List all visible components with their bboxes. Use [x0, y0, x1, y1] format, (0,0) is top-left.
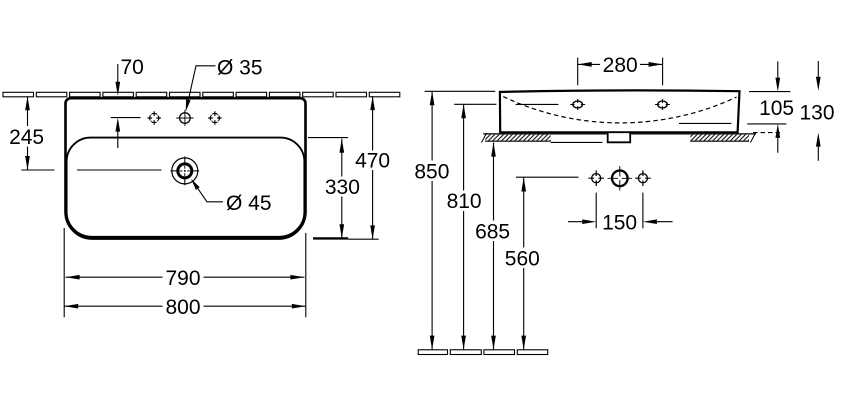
svg-text:150: 150 [602, 211, 637, 234]
label 685 [473, 220, 512, 243]
mounting shelf line [483, 133, 756, 135]
drain trap hole center [608, 166, 632, 190]
label 105 [759, 97, 795, 120]
wall tile strip [3, 92, 400, 97]
floor tile strip [418, 350, 548, 355]
svg-text:800: 800 [165, 296, 200, 319]
faucet hole 35 [176, 110, 193, 126]
svg-text:810: 810 [447, 190, 482, 213]
overflow hole left [570, 99, 585, 110]
ext line bottom right of basin [313, 237, 348, 239]
svg-text:330: 330 [325, 176, 360, 199]
svg-text:560: 560 [505, 248, 540, 271]
basin body [500, 90, 740, 132]
dim 245 [21, 96, 161, 170]
overflow hole right [655, 99, 670, 110]
label d35 [216, 57, 265, 80]
leader diameter 35 [183, 66, 216, 112]
label 245 [8, 126, 47, 149]
svg-text:470: 470 [355, 150, 390, 173]
dim 470 [370, 96, 375, 239]
ext 685 [551, 141, 603, 143]
leader diameter 45 [189, 177, 223, 201]
label 70 [120, 56, 147, 79]
dim 70 [111, 64, 141, 148]
label d45 [225, 192, 274, 215]
drain notch [608, 133, 631, 143]
svg-text:245: 245 [9, 126, 44, 149]
svg-text:685: 685 [475, 220, 510, 243]
svg-text:105: 105 [759, 97, 794, 120]
svg-text:850: 850 [414, 160, 449, 183]
label 850 [413, 160, 452, 183]
optional tap hole right [208, 111, 221, 124]
hatch right [690, 135, 749, 142]
dim 280 [578, 58, 663, 86]
hatch left [485, 135, 551, 142]
ext 105 bottom inner [679, 122, 731, 124]
label 280 [601, 54, 640, 77]
label 790 [163, 267, 204, 290]
svg-text:280: 280 [603, 54, 638, 77]
dim 800 [64, 304, 306, 309]
label 560 [504, 248, 542, 271]
dim 850 [425, 91, 496, 349]
basin inner bowl outline [67, 138, 305, 237]
drain trap hole right [635, 170, 651, 186]
dim 560 [521, 178, 526, 350]
svg-text:790: 790 [165, 267, 200, 290]
ext 810 inner [516, 103, 559, 105]
dim 330 [308, 138, 348, 239]
ext lines 790 800 [64, 228, 306, 317]
svg-text:Ø 45: Ø 45 [226, 192, 272, 215]
dim 810 [454, 104, 496, 349]
drain hole 45 [170, 157, 199, 186]
optional tap hole left [148, 111, 161, 124]
svg-text:130: 130 [799, 102, 834, 125]
inner bowl dashed curve [503, 97, 736, 123]
label 130 [799, 102, 835, 125]
label 470 [354, 150, 393, 173]
label 330 [323, 176, 362, 199]
dim 105 [747, 61, 790, 152]
dim 130 [753, 61, 821, 161]
label 810 [445, 190, 483, 213]
svg-text:Ø 35: Ø 35 [217, 57, 263, 80]
dim 685 [491, 143, 496, 350]
drain trap hole left [588, 170, 604, 186]
break marks on shelf [482, 133, 756, 143]
label 150 [601, 211, 639, 234]
basin outer outline [66, 98, 306, 238]
dim 790 [66, 275, 305, 280]
label 800 [163, 296, 204, 319]
dim 150 [568, 193, 673, 229]
ext 560 [516, 176, 579, 178]
svg-text:70: 70 [121, 56, 144, 79]
